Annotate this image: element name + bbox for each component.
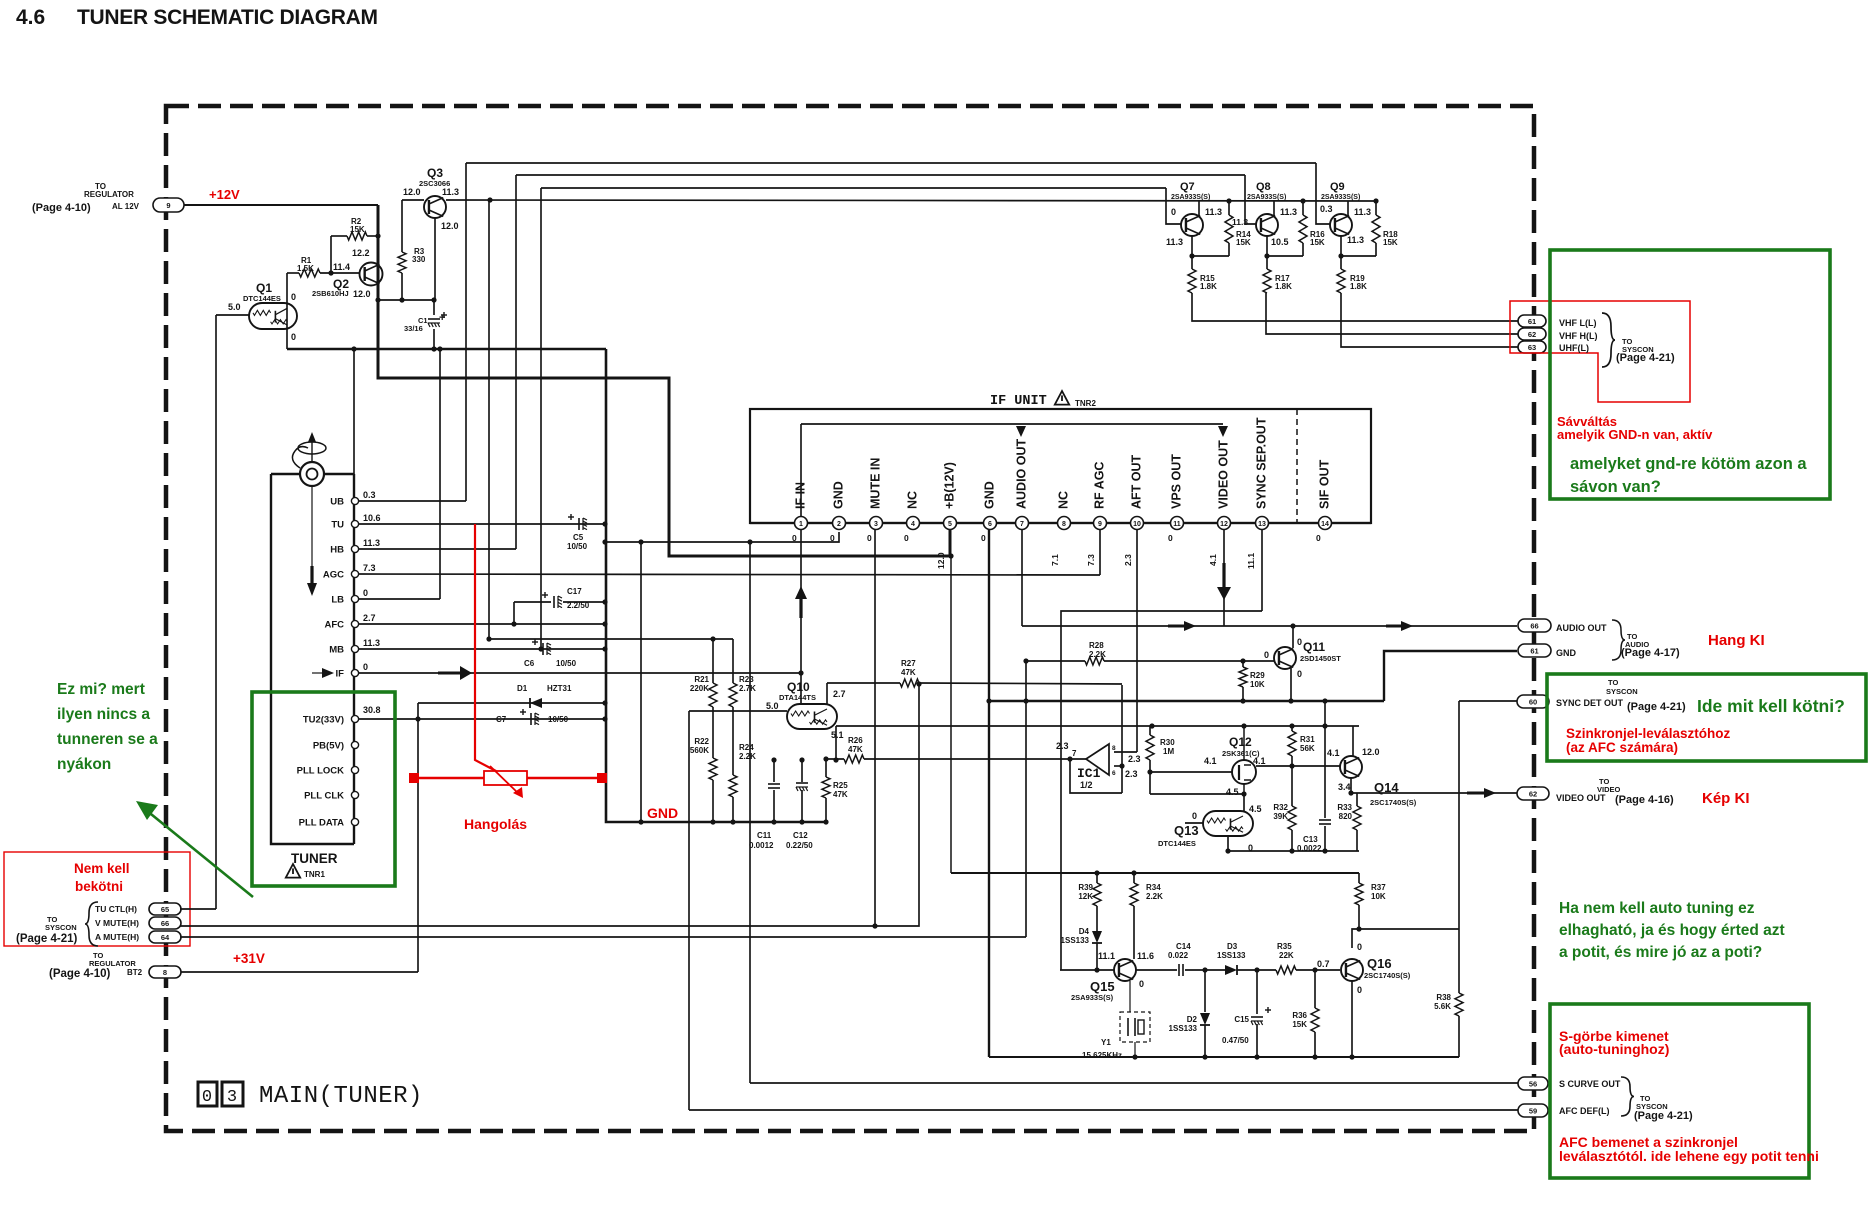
svg-text:VHF H(L): VHF H(L)	[1559, 331, 1598, 341]
svg-text:IC1: IC1	[1077, 766, 1101, 781]
svg-text:5.6K: 5.6K	[1434, 1002, 1451, 1011]
svg-text:GND: GND	[983, 481, 997, 509]
svg-text:15K: 15K	[1236, 238, 1251, 247]
svg-text:11.1: 11.1	[1246, 553, 1256, 569]
svg-text:12: 12	[1220, 521, 1228, 528]
svg-text:1M: 1M	[1163, 747, 1174, 756]
svg-text:2.2K: 2.2K	[1089, 650, 1106, 659]
svg-text:BT2: BT2	[127, 968, 143, 977]
svg-text:0: 0	[1316, 533, 1321, 543]
svg-text:1.8K: 1.8K	[1350, 282, 1367, 291]
svg-text:2SC1740S(S): 2SC1740S(S)	[1364, 971, 1411, 980]
svg-text:7.3: 7.3	[363, 563, 376, 573]
svg-text:2.2/50: 2.2/50	[567, 601, 590, 610]
svg-text:TU CTL(H): TU CTL(H)	[95, 904, 137, 914]
svg-text:REGULATOR: REGULATOR	[89, 959, 136, 968]
svg-text:2: 2	[837, 521, 841, 528]
svg-text:R32: R32	[1273, 803, 1288, 812]
svg-text:1/2: 1/2	[1080, 780, 1093, 790]
svg-text:560K: 560K	[690, 746, 709, 755]
svg-text:(Page 4-10): (Page 4-10)	[49, 968, 111, 980]
svg-text:56: 56	[1529, 1079, 1537, 1088]
svg-text:R21: R21	[694, 675, 709, 684]
svg-text:R31: R31	[1300, 735, 1315, 744]
svg-text:11.3: 11.3	[1280, 207, 1297, 217]
svg-text:GND: GND	[1556, 648, 1577, 658]
svg-text:0.7: 0.7	[1317, 959, 1330, 969]
svg-text:(Page 4-21): (Page 4-21)	[1616, 352, 1675, 364]
svg-text:Q12: Q12	[1229, 735, 1252, 749]
svg-text:2SD1450ST: 2SD1450ST	[1300, 654, 1341, 663]
svg-text:UHF(L): UHF(L)	[1559, 343, 1589, 353]
svg-text:11.3: 11.3	[1232, 217, 1248, 227]
svg-text:10/50: 10/50	[548, 715, 569, 724]
svg-text:R36: R36	[1292, 1011, 1307, 1020]
svg-text:D3: D3	[1227, 942, 1238, 951]
svg-text:Q16: Q16	[1367, 956, 1392, 971]
svg-text:65: 65	[161, 905, 169, 914]
svg-text:0.3: 0.3	[1320, 204, 1333, 214]
svg-text:4.1: 4.1	[1208, 554, 1218, 566]
svg-text:R30: R30	[1160, 738, 1175, 747]
svg-text:1SS133: 1SS133	[1169, 1024, 1198, 1033]
svg-text:TUNER SCHEMATIC DIAGRAM: TUNER SCHEMATIC DIAGRAM	[77, 6, 378, 29]
svg-text:SYNC DET OUT: SYNC DET OUT	[1556, 698, 1624, 708]
svg-text:11.3: 11.3	[363, 638, 380, 648]
svg-text:HZT31: HZT31	[547, 684, 572, 693]
svg-text:1.8K: 1.8K	[1275, 282, 1292, 291]
svg-text:2SB610HJ: 2SB610HJ	[312, 289, 349, 298]
svg-text:VIDEO OUT: VIDEO OUT	[1217, 440, 1231, 509]
svg-text:Q11: Q11	[1303, 640, 1325, 654]
svg-text:2.3: 2.3	[1123, 554, 1133, 566]
svg-text:11.1: 11.1	[1098, 951, 1115, 961]
svg-text:0: 0	[904, 533, 909, 543]
svg-text:11.3: 11.3	[1354, 207, 1371, 217]
svg-text:2.2K: 2.2K	[1146, 892, 1163, 901]
svg-text:a potit, és mire jó az a poti?: a potit, és mire jó az a poti?	[1559, 944, 1762, 961]
svg-text:47K: 47K	[901, 668, 916, 677]
svg-text:13: 13	[1258, 521, 1266, 528]
svg-text:Kép KI: Kép KI	[1702, 790, 1750, 807]
svg-text:22K: 22K	[1279, 951, 1294, 960]
svg-text:11.4: 11.4	[333, 262, 350, 272]
svg-text:Q10: Q10	[787, 680, 810, 694]
svg-text:R26: R26	[848, 736, 863, 745]
svg-text:A MUTE(H): A MUTE(H)	[95, 932, 139, 942]
svg-text:39K: 39K	[1273, 812, 1288, 821]
svg-text:15K: 15K	[1310, 238, 1325, 247]
svg-text:R23: R23	[739, 675, 754, 684]
svg-text:amelyik GND-n van, aktív: amelyik GND-n van, aktív	[1557, 427, 1713, 442]
svg-text:SYNC SEP.OUT: SYNC SEP.OUT	[1255, 417, 1269, 509]
svg-text:UB: UB	[330, 497, 344, 508]
svg-text:D1: D1	[517, 684, 528, 693]
svg-text:R24: R24	[739, 743, 754, 752]
svg-text:0.0012: 0.0012	[749, 841, 774, 850]
svg-text:Q3: Q3	[427, 166, 443, 180]
svg-text:7: 7	[1020, 521, 1024, 528]
svg-text:AUDIO OUT: AUDIO OUT	[1556, 623, 1607, 633]
svg-text:60: 60	[1529, 697, 1537, 706]
svg-text:AFC DEF(L): AFC DEF(L)	[1559, 1106, 1610, 1116]
svg-text:VPS OUT: VPS OUT	[1170, 454, 1184, 509]
svg-text:10/50: 10/50	[556, 659, 577, 668]
svg-text:0: 0	[1168, 533, 1173, 543]
svg-text:8: 8	[163, 968, 167, 977]
svg-text:LB: LB	[331, 595, 344, 606]
svg-text:TO: TO	[1608, 678, 1618, 687]
svg-text:TU: TU	[331, 520, 344, 531]
svg-text:R25: R25	[833, 781, 848, 790]
svg-text:62: 62	[1528, 330, 1536, 339]
svg-text:sávon van?: sávon van?	[1570, 478, 1661, 496]
svg-text:Ide mit kell kötni?: Ide mit kell kötni?	[1697, 696, 1845, 716]
svg-text:1: 1	[799, 521, 803, 528]
svg-text:bekötni: bekötni	[75, 879, 123, 894]
svg-text:220K: 220K	[690, 684, 709, 693]
svg-text:AL 12V: AL 12V	[112, 202, 140, 211]
svg-text:11: 11	[1173, 521, 1181, 528]
svg-text:NC: NC	[1057, 491, 1071, 509]
svg-text:6: 6	[988, 521, 992, 528]
svg-text:Y1: Y1	[1101, 1038, 1111, 1047]
svg-text:6: 6	[1112, 770, 1116, 777]
svg-text:7.1: 7.1	[1050, 554, 1060, 566]
svg-text:ilyen nincs a: ilyen nincs a	[57, 706, 150, 723]
svg-text:3: 3	[227, 1088, 237, 1107]
svg-text:10K: 10K	[1250, 680, 1265, 689]
svg-text:0: 0	[1264, 650, 1269, 660]
svg-text:11.3: 11.3	[1347, 235, 1364, 245]
svg-text:1SS133: 1SS133	[1061, 936, 1090, 945]
svg-text:2SA933S(S): 2SA933S(S)	[1321, 194, 1360, 201]
svg-text:R27: R27	[901, 659, 916, 668]
svg-text:66: 66	[161, 919, 169, 928]
svg-text:47K: 47K	[848, 745, 863, 754]
svg-text:0: 0	[363, 662, 368, 672]
svg-text:5.0: 5.0	[766, 701, 779, 711]
svg-text:R35: R35	[1277, 942, 1292, 951]
svg-text:R38: R38	[1436, 993, 1451, 1002]
svg-text:15K: 15K	[1292, 1020, 1307, 1029]
svg-text:12.0: 12.0	[403, 187, 421, 197]
svg-text:59: 59	[1529, 1106, 1537, 1115]
svg-text:5.0: 5.0	[228, 302, 241, 312]
svg-text:IF UNIT: IF UNIT	[990, 394, 1047, 409]
svg-text:DTC144ES: DTC144ES	[1158, 839, 1196, 848]
svg-text:2SA933S(S): 2SA933S(S)	[1247, 194, 1286, 201]
svg-text:(Page 4-16): (Page 4-16)	[1615, 794, 1674, 806]
svg-text:tunneren se a: tunneren se a	[57, 731, 158, 748]
svg-text:3: 3	[874, 521, 878, 528]
svg-text:4.1: 4.1	[1253, 756, 1266, 766]
svg-text:R28: R28	[1089, 641, 1104, 650]
svg-text:820: 820	[1339, 812, 1353, 821]
svg-text:REGULATOR: REGULATOR	[84, 190, 134, 199]
svg-text:MAIN(TUNER): MAIN(TUNER)	[259, 1083, 423, 1110]
svg-text:0: 0	[1139, 979, 1144, 989]
svg-text:TU2(33V): TU2(33V)	[303, 715, 344, 726]
svg-text:5: 5	[948, 521, 952, 528]
svg-text:8: 8	[1062, 521, 1066, 528]
svg-text:0: 0	[1357, 985, 1362, 995]
svg-text:2.7: 2.7	[833, 689, 846, 699]
svg-text:63: 63	[1528, 343, 1536, 352]
svg-text:Q7: Q7	[1180, 181, 1195, 193]
svg-text:PLL LOCK: PLL LOCK	[297, 766, 344, 777]
svg-text:12.0: 12.0	[936, 552, 946, 569]
svg-text:12K: 12K	[1078, 892, 1093, 901]
svg-text:leválasztótól. ide lehene egy: leválasztótól. ide lehene egy potit tenn…	[1559, 1148, 1819, 1164]
svg-text:Szinkronjel-leválasztóhoz: Szinkronjel-leválasztóhoz	[1566, 726, 1731, 741]
svg-text:D2: D2	[1187, 1015, 1198, 1024]
svg-text:AFC: AFC	[324, 620, 344, 631]
svg-text:0: 0	[1357, 942, 1362, 952]
svg-text:12.2: 12.2	[352, 248, 370, 258]
svg-text:11.3: 11.3	[1166, 237, 1183, 247]
svg-text:0: 0	[867, 533, 872, 543]
svg-text:TNR1: TNR1	[304, 870, 325, 879]
svg-text:10K: 10K	[1371, 892, 1386, 901]
svg-text:12.0: 12.0	[441, 221, 459, 231]
svg-text:amelyket gnd-re kötöm azon a: amelyket gnd-re kötöm azon a	[1570, 455, 1807, 473]
svg-text:(Page 4-21): (Page 4-21)	[1627, 701, 1686, 713]
svg-text:SIF OUT: SIF OUT	[1318, 459, 1332, 509]
svg-text:10.6: 10.6	[363, 513, 381, 523]
svg-text:10: 10	[1133, 521, 1141, 528]
svg-text:0: 0	[291, 292, 296, 302]
svg-text:Q15: Q15	[1090, 979, 1115, 994]
svg-text:2.2K: 2.2K	[739, 752, 756, 761]
svg-text:C14: C14	[1176, 942, 1191, 951]
svg-text:30.8: 30.8	[363, 705, 381, 715]
svg-text:1SS133: 1SS133	[1217, 951, 1246, 960]
svg-text:nyákon: nyákon	[57, 756, 111, 773]
svg-text:SYSCON: SYSCON	[1606, 687, 1638, 696]
svg-text:AGC: AGC	[323, 570, 344, 581]
svg-text:15K: 15K	[1383, 238, 1398, 247]
svg-text:elhagható, ja és hogy érted az: elhagható, ja és hogy érted azt	[1559, 922, 1785, 939]
svg-text:12.0: 12.0	[353, 289, 371, 299]
svg-text:DTC144ES: DTC144ES	[243, 294, 281, 303]
svg-text:0: 0	[291, 332, 296, 342]
svg-text:VIDEO OUT: VIDEO OUT	[1556, 793, 1606, 803]
svg-text:C13: C13	[1303, 835, 1318, 844]
svg-text:7: 7	[1072, 749, 1077, 758]
svg-text:0.3: 0.3	[363, 490, 376, 500]
svg-text:0: 0	[1192, 811, 1197, 821]
svg-text:R39: R39	[1078, 883, 1093, 892]
svg-text:66: 66	[1530, 621, 1538, 630]
svg-text:7.3: 7.3	[1086, 554, 1096, 566]
svg-text:+12V: +12V	[209, 187, 240, 202]
svg-text:Ha nem kell auto tuning ez: Ha nem kell auto tuning ez	[1559, 900, 1755, 917]
svg-text:4.6: 4.6	[16, 6, 45, 29]
svg-text:64: 64	[161, 933, 170, 942]
svg-text:GND: GND	[832, 481, 846, 509]
svg-text:3.4: 3.4	[1338, 782, 1351, 792]
svg-text:Q13: Q13	[1174, 823, 1199, 838]
svg-text:RF AGC: RF AGC	[1093, 462, 1107, 509]
svg-text:C6: C6	[524, 659, 535, 668]
svg-text:GND: GND	[647, 805, 678, 821]
svg-text:9: 9	[166, 201, 170, 210]
svg-text:(Page 4-17): (Page 4-17)	[1621, 647, 1680, 659]
svg-text:2.7K: 2.7K	[739, 684, 756, 693]
svg-text:+B(12V): +B(12V)	[943, 462, 957, 509]
svg-text:SYSCON: SYSCON	[45, 923, 77, 932]
svg-text:1.5K: 1.5K	[297, 264, 314, 273]
svg-text:V MUTE(H): V MUTE(H)	[95, 918, 139, 928]
svg-text:2.3: 2.3	[1128, 754, 1141, 764]
svg-text:R34: R34	[1146, 883, 1161, 892]
svg-text:PLL CLK: PLL CLK	[304, 791, 344, 802]
svg-text:D4: D4	[1079, 927, 1090, 936]
svg-text:11.6: 11.6	[1137, 951, 1154, 961]
svg-text:C15: C15	[1234, 1015, 1249, 1024]
svg-text:(az AFC számára): (az AFC számára)	[1566, 740, 1678, 755]
svg-text:MUTE IN: MUTE IN	[869, 458, 883, 509]
svg-text:47K: 47K	[833, 790, 848, 799]
svg-text:15K: 15K	[350, 225, 365, 234]
svg-text:R33: R33	[1337, 803, 1352, 812]
svg-text:C12: C12	[793, 831, 808, 840]
svg-text:+31V: +31V	[233, 951, 265, 966]
svg-text:Q9: Q9	[1330, 181, 1345, 193]
svg-text:4.5: 4.5	[1226, 787, 1239, 797]
svg-text:(auto-tuninghoz): (auto-tuninghoz)	[1559, 1041, 1669, 1057]
svg-text:+: +	[439, 312, 445, 324]
svg-text:11.3: 11.3	[363, 538, 380, 548]
svg-text:TUNER: TUNER	[291, 851, 338, 866]
svg-text:R37: R37	[1371, 883, 1386, 892]
svg-text:Nem kell: Nem kell	[74, 861, 130, 876]
svg-text:0.022: 0.022	[1168, 951, 1189, 960]
svg-text:4: 4	[911, 521, 915, 528]
svg-text:R29: R29	[1250, 671, 1265, 680]
svg-text:HB: HB	[330, 545, 344, 556]
svg-text:2.3: 2.3	[1125, 769, 1138, 779]
svg-text:PB(5V): PB(5V)	[313, 741, 344, 752]
svg-text:MB: MB	[329, 645, 344, 656]
svg-text:S CURVE OUT: S CURVE OUT	[1559, 1079, 1621, 1089]
svg-text:(Page 4-21): (Page 4-21)	[1634, 1110, 1693, 1122]
svg-text:TNR2: TNR2	[1075, 399, 1096, 408]
svg-text:62: 62	[1529, 789, 1537, 798]
svg-text:0: 0	[1297, 637, 1302, 647]
svg-text:(Page 4-10): (Page 4-10)	[32, 202, 91, 214]
svg-text:61: 61	[1528, 317, 1536, 326]
svg-text:4.1: 4.1	[1204, 756, 1217, 766]
svg-text:10.5: 10.5	[1271, 237, 1289, 247]
svg-text:VHF L(L): VHF L(L)	[1559, 318, 1597, 328]
svg-text:0.22/50: 0.22/50	[786, 841, 813, 850]
svg-text:PLL DATA: PLL DATA	[299, 818, 345, 829]
svg-text:Q1: Q1	[256, 281, 272, 295]
svg-text:0: 0	[1297, 669, 1302, 679]
svg-text:2SA933S(S): 2SA933S(S)	[1071, 993, 1114, 1002]
svg-text:(Page 4-21): (Page 4-21)	[16, 933, 78, 945]
svg-text:DTA144TS: DTA144TS	[779, 693, 816, 702]
svg-text:10/50: 10/50	[567, 542, 588, 551]
svg-text:12.0: 12.0	[1362, 747, 1380, 757]
svg-text:56K: 56K	[1300, 744, 1315, 753]
svg-text:11.3: 11.3	[1205, 207, 1222, 217]
svg-text:AUDIO OUT: AUDIO OUT	[1015, 439, 1029, 510]
svg-text:C5: C5	[573, 533, 584, 542]
svg-text:11.3: 11.3	[442, 187, 459, 197]
svg-text:2SC1740S(S): 2SC1740S(S)	[1370, 798, 1417, 807]
svg-text:2.3: 2.3	[1056, 741, 1069, 751]
svg-text:Hang KI: Hang KI	[1708, 632, 1765, 649]
svg-text:15.625KHz: 15.625KHz	[1082, 1051, 1122, 1060]
svg-text:C11: C11	[757, 831, 772, 840]
svg-text:1.8K: 1.8K	[1200, 282, 1217, 291]
svg-text:2SA933S(S): 2SA933S(S)	[1171, 194, 1210, 201]
svg-text:0: 0	[202, 1088, 212, 1107]
svg-text:14: 14	[1321, 521, 1329, 528]
svg-text:IF: IF	[336, 669, 345, 680]
svg-text:Hangolás: Hangolás	[464, 816, 527, 832]
svg-text:0: 0	[981, 533, 986, 543]
svg-text:Ez mi? mert: Ez mi? mert	[57, 681, 145, 698]
svg-text:Q8: Q8	[1256, 181, 1271, 193]
svg-text:R22: R22	[694, 737, 709, 746]
svg-text:8: 8	[1112, 745, 1116, 752]
svg-text:4.1: 4.1	[1327, 748, 1340, 758]
svg-text:9: 9	[1098, 521, 1102, 528]
svg-text:NC: NC	[906, 491, 920, 509]
svg-text:0.47/50: 0.47/50	[1222, 1036, 1249, 1045]
svg-text:C17: C17	[567, 587, 582, 596]
svg-text:0: 0	[1171, 207, 1176, 217]
svg-text:61: 61	[1530, 646, 1538, 655]
svg-text:2.7: 2.7	[363, 613, 376, 623]
svg-text:33/16: 33/16	[404, 324, 423, 333]
svg-text:5.1: 5.1	[831, 730, 844, 740]
svg-text:4.5: 4.5	[1249, 804, 1262, 814]
svg-text:C7: C7	[496, 715, 507, 724]
svg-text:AFT OUT: AFT OUT	[1130, 454, 1144, 509]
svg-text:0: 0	[363, 588, 368, 598]
svg-text:330: 330	[412, 255, 426, 264]
